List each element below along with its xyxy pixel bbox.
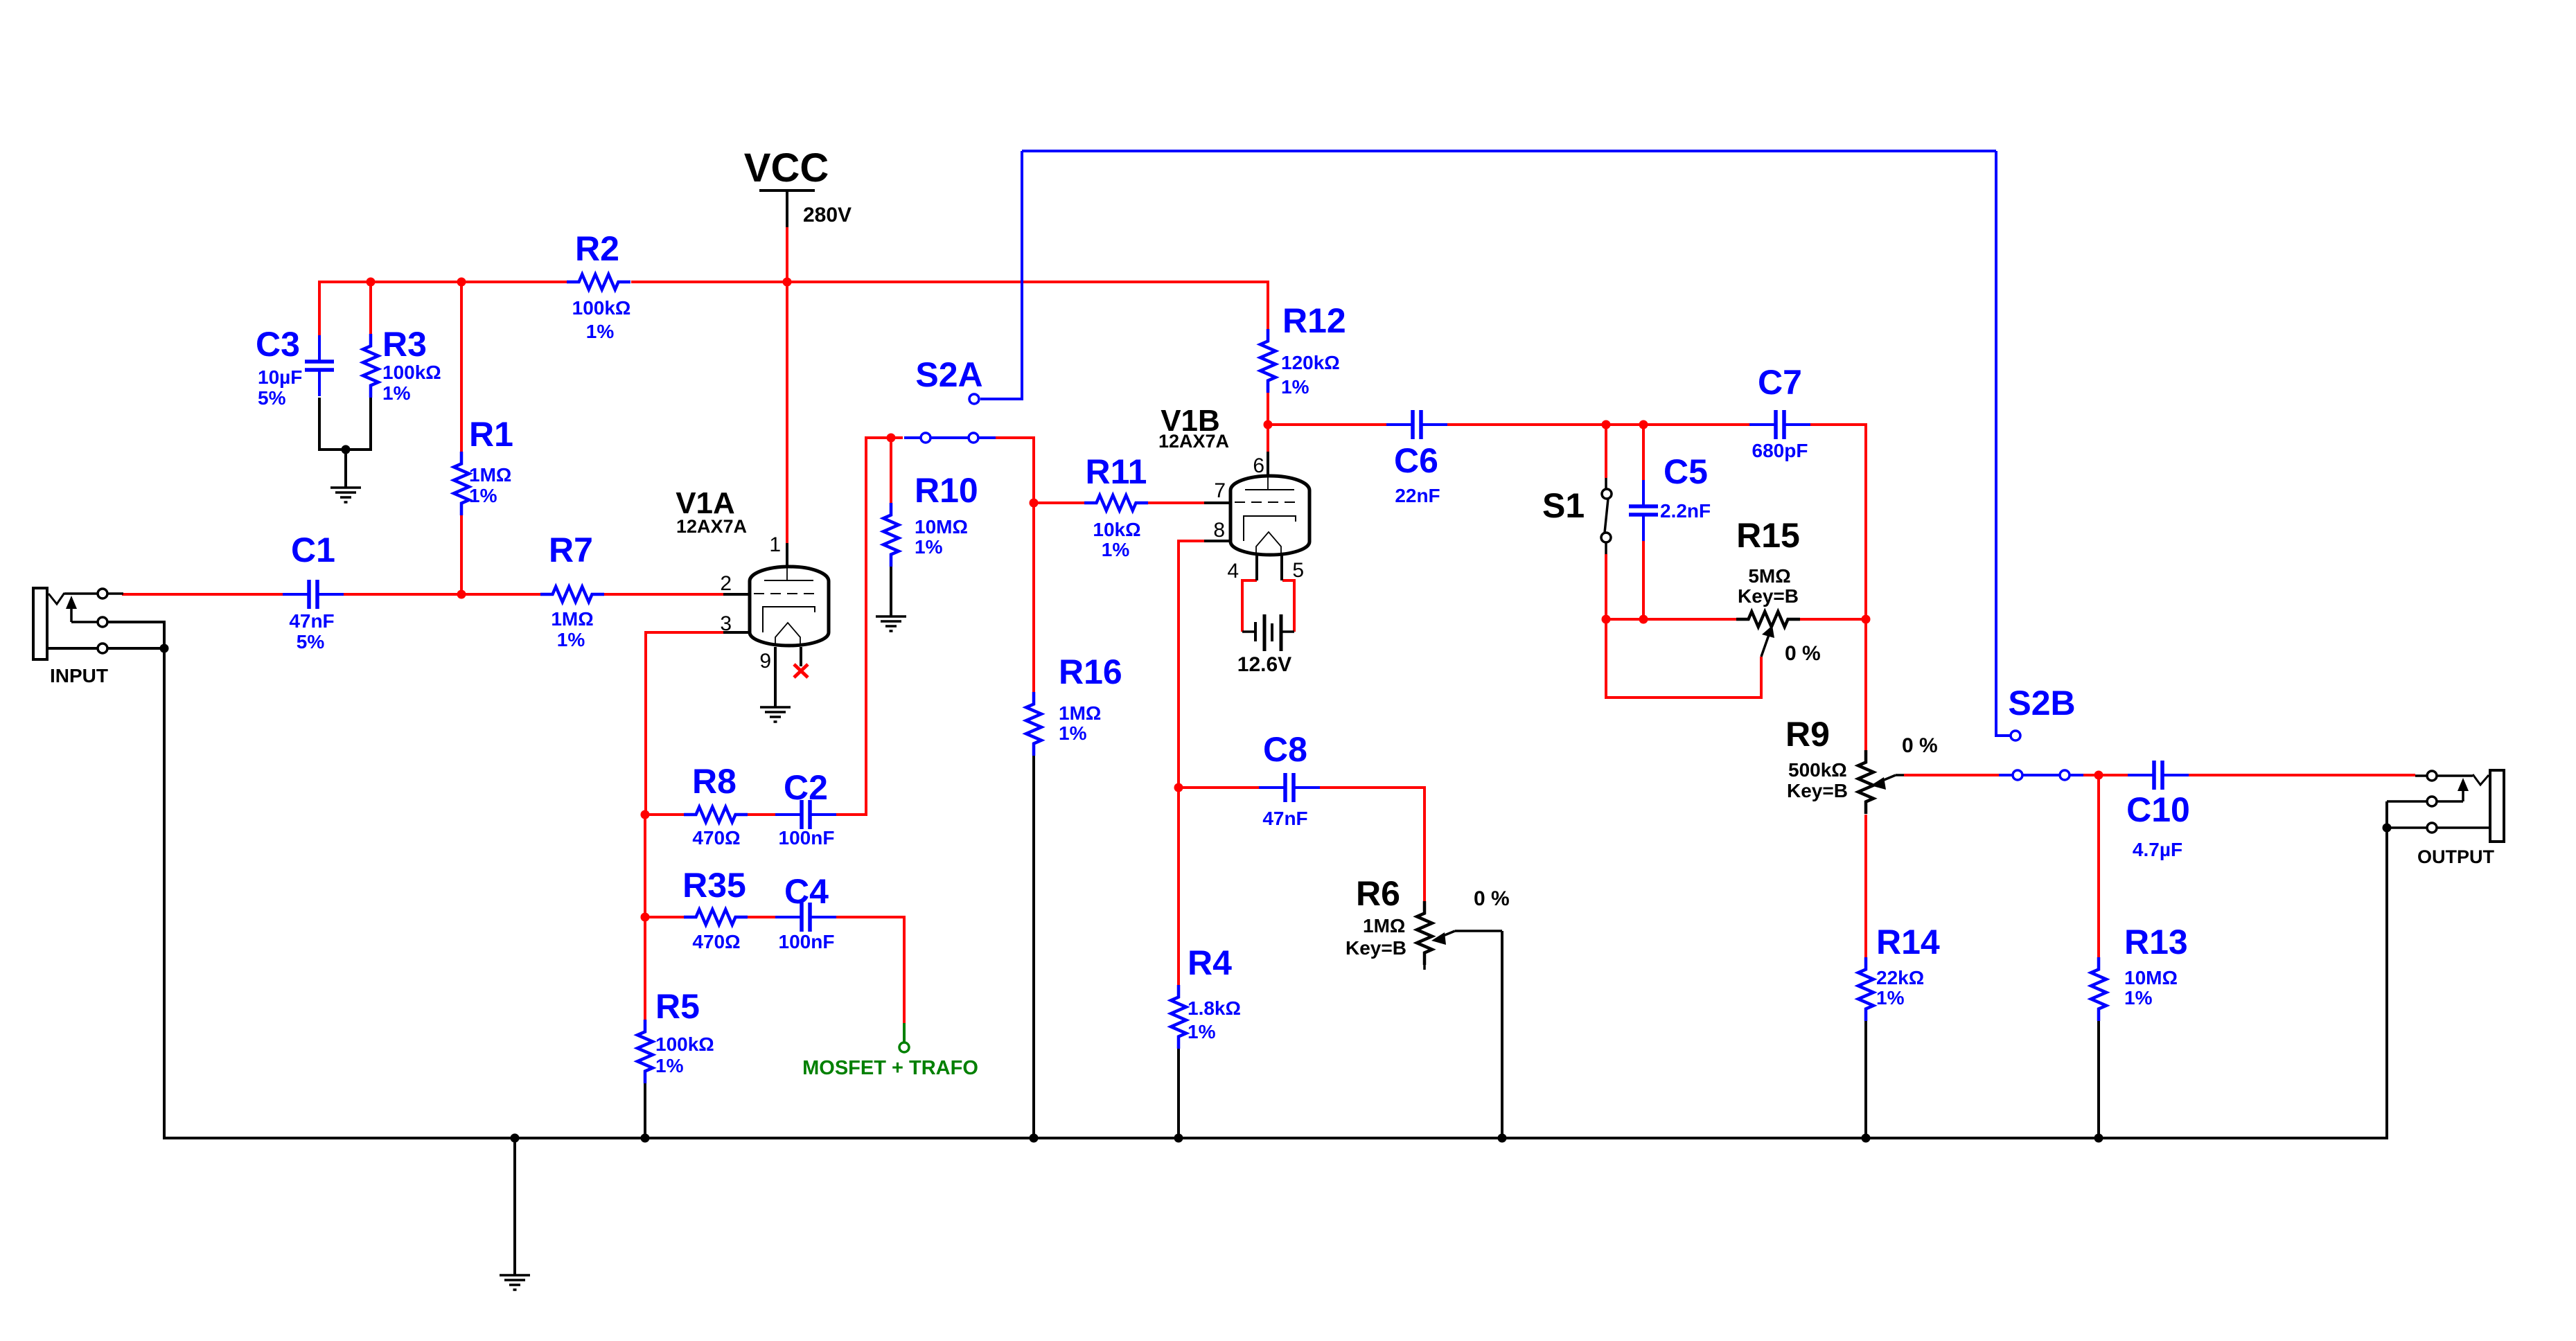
svg-text:100nF: 100nF xyxy=(779,827,835,849)
resistor R7 xyxy=(540,587,604,602)
ground on rail xyxy=(500,1275,530,1290)
svg-text:1%: 1% xyxy=(469,485,497,506)
svg-text:R5: R5 xyxy=(655,987,700,1026)
resistor R10 xyxy=(883,503,899,567)
wire R4 top lead xyxy=(1177,788,1180,985)
wire R8 left lead xyxy=(645,813,684,816)
value R10 10M xyxy=(915,516,968,538)
wire V1B heater pin4 red xyxy=(1242,580,1257,632)
svg-text:47nF: 47nF xyxy=(289,610,334,632)
junction red (535,407) xyxy=(367,278,376,287)
wire ground stem below C3 xyxy=(344,450,347,488)
svg-text:1%: 1% xyxy=(1059,722,1087,744)
junction red (2318,613) xyxy=(1602,420,1611,429)
resistor R5 xyxy=(637,1020,653,1083)
value C6 22nF xyxy=(1395,485,1440,506)
svg-text:500kΩ: 500kΩ xyxy=(1788,759,1847,781)
value R11 1% xyxy=(1102,539,1130,560)
value R12 1% xyxy=(1281,376,1309,398)
wire input tip to C1 xyxy=(122,593,283,596)
svg-text:12AX7A: 12AX7A xyxy=(676,516,747,537)
label R9 xyxy=(1785,715,1830,754)
svg-text:C4: C4 xyxy=(784,872,829,911)
pin 7 V1B xyxy=(1214,479,1226,502)
capacitor C3 xyxy=(305,335,334,396)
wire R35 left lead xyxy=(645,916,684,918)
svg-text:1MΩ: 1MΩ xyxy=(1363,915,1405,936)
label R35 xyxy=(682,866,746,905)
svg-text:R13: R13 xyxy=(2124,923,2188,961)
svg-text:4.7µF: 4.7µF xyxy=(2133,839,2182,860)
wire C3 R3 bottom tie xyxy=(319,398,371,450)
label R1 xyxy=(469,415,513,454)
wire ground rail xyxy=(164,648,2387,1138)
capacitor C10 xyxy=(2128,761,2189,790)
junction red (1286,632) xyxy=(887,434,896,443)
wire C1 to R7 via node xyxy=(344,593,541,596)
label R11 xyxy=(1086,452,1147,491)
label R3 xyxy=(382,325,427,364)
resistor R14 xyxy=(1858,957,1873,1021)
svg-text:22kΩ: 22kΩ xyxy=(1876,967,1924,988)
label V1B xyxy=(1161,404,1220,438)
svg-text:100kΩ: 100kΩ xyxy=(655,1033,714,1055)
wire R4 bottom lead xyxy=(1177,1049,1180,1138)
junction black (931,1643) xyxy=(641,1134,650,1143)
junction red (666,407) xyxy=(457,278,466,287)
svg-text:R1: R1 xyxy=(469,415,513,454)
svg-text:V1A: V1A xyxy=(676,486,735,520)
svg-text:1%: 1% xyxy=(1188,1021,1216,1042)
svg-text:100kΩ: 100kΩ xyxy=(572,297,631,319)
ground below R10 xyxy=(876,616,906,631)
svg-text:1MΩ: 1MΩ xyxy=(1059,702,1101,724)
svg-text:Key=B: Key=B xyxy=(1787,780,1848,801)
svg-text:22nF: 22nF xyxy=(1395,485,1440,506)
wire R35 to C4 xyxy=(748,916,775,918)
value R7 1M xyxy=(551,608,593,630)
wire R10 top lead xyxy=(890,438,892,504)
label R14 xyxy=(1876,923,1940,961)
wire rail ground stem xyxy=(513,1138,516,1275)
svg-text:47nF: 47nF xyxy=(1262,808,1307,829)
value R6 wiper 0 % xyxy=(1474,887,1510,910)
value R7 1% xyxy=(557,629,585,650)
value C2 100nF xyxy=(779,827,835,849)
resistor R11 xyxy=(1084,495,1148,510)
junction red (2372,894) xyxy=(1639,615,1648,624)
label C3 xyxy=(256,325,300,364)
svg-text:S2B: S2B xyxy=(2008,684,2075,722)
svg-text:100kΩ: 100kΩ xyxy=(382,362,441,383)
value R3 1% xyxy=(382,382,411,404)
potentiometer R15 xyxy=(1736,612,1800,657)
wire VCC bus left segment with C3 riser xyxy=(319,282,567,337)
svg-text:INPUT: INPUT xyxy=(50,665,108,686)
junction black (743,1643) xyxy=(511,1134,520,1143)
label R4 xyxy=(1188,943,1232,982)
wire S2B blue drop xyxy=(1996,151,2010,736)
value R13 10M xyxy=(2124,967,2178,988)
wire R35 node to R5 xyxy=(644,917,646,1020)
value V1A 12AX7A xyxy=(676,516,747,537)
value R5 100k xyxy=(655,1033,714,1055)
wire V1A pin1 plate supply xyxy=(786,282,788,543)
junction red (1492,726) xyxy=(1030,499,1039,508)
junction black (2168,1643) xyxy=(1498,1134,1507,1143)
wire C8 to R6 top xyxy=(1320,788,1424,906)
label VCC xyxy=(744,145,829,190)
svg-text:Key=B: Key=B xyxy=(1738,585,1799,607)
value C1 47nF xyxy=(289,610,334,632)
svg-text:R7: R7 xyxy=(549,531,593,569)
wire V1B plate pin6 xyxy=(1267,425,1269,452)
svg-text:R2: R2 xyxy=(575,229,619,268)
svg-text:5%: 5% xyxy=(297,631,325,652)
svg-text:C8: C8 xyxy=(1263,730,1307,769)
svg-text:1MΩ: 1MΩ xyxy=(551,608,593,630)
svg-text:R3: R3 xyxy=(382,325,427,364)
wire C7 to R9 column top xyxy=(1810,425,1866,619)
svg-text:R9: R9 xyxy=(1785,715,1830,754)
svg-text:7: 7 xyxy=(1214,479,1226,502)
svg-text:1%: 1% xyxy=(655,1055,684,1076)
value R8 470 xyxy=(692,827,740,849)
svg-text:C10: C10 xyxy=(2126,790,2190,829)
svg-text:1%: 1% xyxy=(557,629,585,650)
svg-text:R12: R12 xyxy=(1282,301,1346,340)
wire S2A blue drop xyxy=(980,151,1022,399)
label OUTPUT xyxy=(2417,846,2495,867)
junction red (931,1176) xyxy=(641,810,650,819)
value C7 680pF xyxy=(1752,440,1808,461)
resistor R13 xyxy=(2091,957,2106,1021)
label C10 xyxy=(2126,790,2190,829)
wire input sleeve to junction xyxy=(107,647,164,650)
svg-text:470Ω: 470Ω xyxy=(692,931,740,952)
junction red (2372,613) xyxy=(1639,420,1648,429)
label C6 xyxy=(1394,441,1438,480)
value battery 12.6V xyxy=(1237,653,1291,676)
label S2B xyxy=(2008,684,2075,722)
value C4 100nF xyxy=(779,931,835,952)
wire R12 node to C6 xyxy=(1268,423,1386,426)
potentiometer R6 xyxy=(1417,901,1502,970)
svg-text:0 %: 0 % xyxy=(1474,887,1510,910)
svg-text:C7: C7 xyxy=(1758,363,1802,402)
label INPUT xyxy=(50,665,108,686)
value C5 2.2nF xyxy=(1660,500,1711,522)
wire R9 to R14 xyxy=(1864,815,1867,957)
value R1 1M xyxy=(469,464,511,486)
pin 4 V1B xyxy=(1227,560,1239,583)
label C1 xyxy=(291,531,335,569)
junction black (1492,1643) xyxy=(1030,1134,1039,1143)
wire R6 wiper to rail xyxy=(1501,931,1503,1138)
svg-text:Key=B: Key=B xyxy=(1346,937,1406,959)
tube triode V1B xyxy=(1204,452,1309,580)
label R16 xyxy=(1059,652,1122,691)
wire C8 left lead wire xyxy=(1179,786,1259,789)
value R4 1.8k xyxy=(1188,997,1241,1019)
ground below C3 xyxy=(330,488,361,502)
svg-text:R35: R35 xyxy=(682,866,746,905)
switch S2A xyxy=(904,394,996,443)
svg-text:10MΩ: 10MΩ xyxy=(915,516,968,538)
wire V1B heater pin5 red xyxy=(1282,580,1294,632)
resistor R1 xyxy=(454,452,469,515)
label R12 xyxy=(1282,301,1346,340)
junction black (2693,1643) xyxy=(1862,1134,1871,1143)
svg-text:10MΩ: 10MΩ xyxy=(2124,967,2178,988)
label S2A xyxy=(915,355,982,394)
value R2 1% xyxy=(586,321,615,342)
wire C4 to MOSFET tap xyxy=(836,917,904,1023)
value R14 1% xyxy=(1876,987,1905,1009)
potentiometer R9 xyxy=(1858,750,1904,814)
svg-text:MOSFET + TRAFO: MOSFET + TRAFO xyxy=(802,1057,978,1079)
resistor R35 xyxy=(684,909,748,925)
svg-text:2.2nF: 2.2nF xyxy=(1660,500,1711,522)
wire R13 top lead xyxy=(2097,775,2100,957)
value R2 100k xyxy=(572,297,631,319)
switch S1 xyxy=(1601,478,1612,554)
svg-text:R15: R15 xyxy=(1736,516,1800,555)
wire S2B contact to C10 xyxy=(2083,774,2128,776)
pin 1 V1A xyxy=(769,533,781,556)
wire R15 wiper loop xyxy=(1606,619,1761,698)
resistor R8 xyxy=(684,807,748,822)
label R6 xyxy=(1356,874,1400,913)
wire R13 bottom lead xyxy=(2097,1021,2100,1138)
label C8 xyxy=(1263,730,1307,769)
pin 8 V1B xyxy=(1213,519,1225,542)
wire R9 wiper to S2B contact xyxy=(1904,774,1999,776)
svg-text:R4: R4 xyxy=(1188,943,1232,982)
junction red (666,858) xyxy=(457,590,466,599)
value C1 5% xyxy=(297,631,325,652)
svg-text:10µF: 10µF xyxy=(258,366,302,388)
svg-text:1MΩ: 1MΩ xyxy=(469,464,511,486)
capacitor C5 xyxy=(1629,480,1658,541)
svg-text:5MΩ: 5MΩ xyxy=(1748,565,1790,587)
resistor R4 xyxy=(1171,985,1186,1049)
wire VCC bus right segment to R12 corner xyxy=(631,282,1268,336)
svg-text:1%: 1% xyxy=(1876,987,1905,1009)
wire R1 bottom lead xyxy=(460,515,463,594)
value R15 5M xyxy=(1748,565,1790,587)
svg-text:4: 4 xyxy=(1227,560,1239,583)
svg-text:1: 1 xyxy=(769,533,781,556)
junction black (237,936) xyxy=(160,644,169,653)
value R4 1% xyxy=(1188,1021,1216,1042)
svg-text:R6: R6 xyxy=(1356,874,1400,913)
svg-text:470Ω: 470Ω xyxy=(692,827,740,849)
resistor R2 xyxy=(567,274,630,290)
svg-text:1%: 1% xyxy=(1281,376,1309,398)
wire R16 bottom lead xyxy=(1032,756,1035,1138)
label C4 xyxy=(784,872,829,911)
junction black (3445,1195) xyxy=(2383,824,2392,833)
wire VCC stem red xyxy=(786,227,788,282)
value C10 4.7uF xyxy=(2133,839,2182,860)
value C3 10uF xyxy=(258,366,302,388)
svg-text:9: 9 xyxy=(759,650,771,673)
svg-text:S1: S1 xyxy=(1542,486,1585,525)
value R14 22k xyxy=(1876,967,1924,988)
capacitor C6 xyxy=(1386,410,1447,439)
label C2 xyxy=(784,768,828,807)
label R7 xyxy=(549,531,593,569)
wire R10 bottom lead xyxy=(890,567,892,616)
value R10 1% xyxy=(915,536,943,558)
svg-text:C6: C6 xyxy=(1394,441,1438,480)
junction red (3029,1119) xyxy=(2094,771,2103,780)
wire C6 to C7 through S1/C5 nodes xyxy=(1447,423,1749,426)
wire V1A cathode pin3 down xyxy=(646,632,723,815)
value C8 47nF xyxy=(1262,808,1307,829)
ground below V1A pin9 xyxy=(760,707,791,722)
capacitor C8 xyxy=(1259,773,1320,802)
label R5 xyxy=(655,987,700,1026)
wire cathode node to R35 node xyxy=(644,815,646,917)
value R9 Key=B xyxy=(1787,780,1848,801)
wire R11 left lead xyxy=(1034,501,1084,504)
capacitor C4 xyxy=(775,903,836,932)
wire R15 left wire xyxy=(1606,618,1737,621)
label C5 xyxy=(1664,452,1708,491)
wire S2 blue bus top xyxy=(1022,150,1996,152)
svg-text:10kΩ: 10kΩ xyxy=(1093,519,1140,540)
value R35 470 xyxy=(692,931,740,952)
svg-text:1%: 1% xyxy=(382,382,411,404)
svg-text:R11: R11 xyxy=(1086,452,1147,491)
wire C5 top lead xyxy=(1642,425,1645,480)
resistor R12 xyxy=(1260,329,1276,393)
connector INPUT jack xyxy=(33,588,123,659)
svg-text:12.6V: 12.6V xyxy=(1237,653,1291,676)
wire S2A to R11/R16 corner xyxy=(996,438,1034,503)
switch S2B xyxy=(1999,731,2083,780)
resistor R16 xyxy=(1026,692,1041,756)
svg-text:0 %: 0 % xyxy=(1902,734,1938,757)
svg-text:VCC: VCC xyxy=(744,145,829,190)
label S1 xyxy=(1542,486,1585,525)
pin 9 V1A xyxy=(759,650,771,673)
value R6 Key=B xyxy=(1346,937,1406,959)
svg-text:R8: R8 xyxy=(692,762,736,801)
svg-text:1%: 1% xyxy=(2124,987,2153,1009)
value R6 1M xyxy=(1363,915,1405,936)
junction red (2318,894) xyxy=(1602,615,1611,624)
value R1 1% xyxy=(469,485,497,506)
wire R8 to C2 xyxy=(748,813,775,816)
junction black (1701,1643) xyxy=(1174,1134,1183,1143)
value R13 1% xyxy=(2124,987,2153,1009)
junction black (499,649) xyxy=(342,445,351,454)
svg-text:C3: C3 xyxy=(256,325,300,364)
wire C2 up to S2A node xyxy=(836,438,903,815)
value R15 wiper 0 % xyxy=(1785,642,1821,665)
wire R11 to V1B grid xyxy=(1148,501,1204,504)
power VCC symbol xyxy=(759,190,815,227)
label R13 xyxy=(2124,923,2188,961)
svg-text:8: 8 xyxy=(1213,519,1225,542)
svg-text:C5: C5 xyxy=(1664,452,1708,491)
wire S1 top lead xyxy=(1605,425,1607,478)
svg-text:5%: 5% xyxy=(258,387,286,409)
wire C5 bottom lead xyxy=(1642,541,1645,619)
value R12 120k xyxy=(1281,352,1340,373)
svg-text:2: 2 xyxy=(720,572,732,595)
junction black (3029,1643) xyxy=(2094,1134,2103,1143)
svg-text:120kΩ: 120kΩ xyxy=(1281,352,1340,373)
label MOSFET + TRAFO xyxy=(802,1057,978,1079)
capacitor C7 xyxy=(1749,410,1810,439)
wire input ring to rail xyxy=(107,622,164,648)
svg-text:R16: R16 xyxy=(1059,652,1122,691)
svg-text:1%: 1% xyxy=(586,321,615,342)
svg-text:S2A: S2A xyxy=(915,355,982,394)
wire R1 top lead xyxy=(460,282,463,452)
pin 3 V1A xyxy=(720,612,732,635)
value R9 wiper 0 % xyxy=(1902,734,1938,757)
value R16 1% xyxy=(1059,722,1087,744)
label V1A xyxy=(676,486,735,520)
svg-text:R10: R10 xyxy=(915,471,978,510)
wire C10 to output jack xyxy=(2189,774,2415,776)
junction red (1830,613) xyxy=(1264,420,1273,429)
wire R16 top lead xyxy=(1032,503,1035,693)
label R2 xyxy=(575,229,619,268)
pin 2 V1A xyxy=(720,572,732,595)
label R15 xyxy=(1736,516,1800,555)
wire R9 top lead xyxy=(1864,619,1867,750)
value R16 1M xyxy=(1059,702,1101,724)
wire R7 to V1A grid xyxy=(604,593,723,596)
no-connect X on V1A heater pin xyxy=(794,664,808,677)
svg-text:680pF: 680pF xyxy=(1752,440,1808,461)
value V1B 12AX7A xyxy=(1158,431,1229,452)
svg-text:OUTPUT: OUTPUT xyxy=(2417,846,2495,867)
wire R14 bottom lead xyxy=(1864,1021,1867,1138)
junction red (931,1324) xyxy=(641,913,650,922)
svg-text:1%: 1% xyxy=(1102,539,1130,560)
svg-text:C2: C2 xyxy=(784,768,828,807)
value VCC 280V xyxy=(803,204,852,227)
capacitor C1 xyxy=(283,580,344,609)
value R11 10k xyxy=(1093,519,1140,540)
value R3 100k xyxy=(382,362,441,383)
value R5 1% xyxy=(655,1055,684,1076)
junction red (1701,1137) xyxy=(1174,783,1183,792)
svg-text:12AX7A: 12AX7A xyxy=(1158,431,1229,452)
svg-text:C1: C1 xyxy=(291,531,335,569)
wire S1 bottom lead xyxy=(1605,554,1607,619)
svg-text:5: 5 xyxy=(1292,559,1304,582)
wire R3 top lead xyxy=(369,282,372,335)
wire R5 bottom lead xyxy=(644,1083,646,1138)
resistor R3 xyxy=(363,334,378,398)
value R15 Key=B xyxy=(1738,585,1799,607)
wire R15 right wire xyxy=(1800,618,1866,621)
wire input sleeve lead xyxy=(47,647,98,650)
node MOSFET+TRAFO tap xyxy=(899,1023,909,1052)
svg-text:3: 3 xyxy=(720,612,732,635)
svg-text:100nF: 100nF xyxy=(779,931,835,952)
wire V1A pin9 to ground xyxy=(774,647,777,707)
capacitor C2 xyxy=(775,800,836,829)
